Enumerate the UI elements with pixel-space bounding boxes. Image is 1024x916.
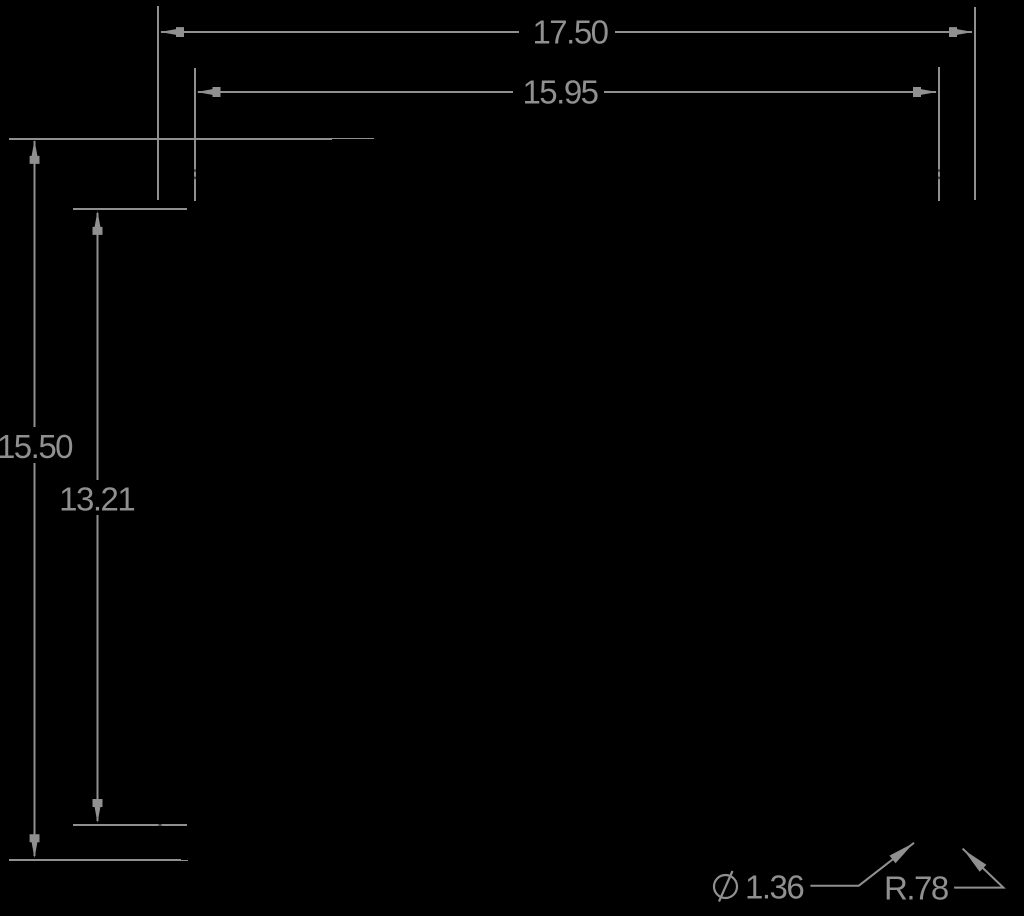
svg-text:1.36: 1.36	[745, 869, 803, 906]
svg-text:17.50: 17.50	[532, 14, 608, 51]
arrowhead 17.50 left	[160, 27, 184, 37]
dimension 17.50 dimension line left segment	[161, 31, 519, 33]
arrowhead 13.21 up	[93, 211, 103, 235]
dimension 15.95 dimension line right segment	[604, 91, 936, 93]
arrowhead 13.21 down	[93, 799, 103, 823]
arrowhead 15.95 left	[197, 87, 221, 97]
dark notch on 13.21 bottom extension line (part edge crossing)	[159, 824, 162, 827]
arrowhead leader diameter 1.36	[890, 843, 914, 863]
dark notch on 15.95 left extension line (part edge crossing)	[194, 169, 197, 172]
dimension 17.50 right extension line	[974, 7, 976, 200]
diameter symbol of 1.36 callout	[714, 871, 737, 902]
dimension 13.21 dimension line lower segment	[97, 515, 99, 821]
dark notch on 15.95 right extension line (part edge crossing)	[938, 169, 941, 172]
dimension 17.50 left extension line	[157, 6, 159, 200]
dimension 15.95 left extension line	[194, 68, 196, 201]
svg-text:13.21: 13.21	[59, 481, 134, 518]
arrowhead leader radius R.78	[964, 850, 987, 872]
dimension 13.21 dimension line upper segment	[97, 213, 99, 480]
svg-text:R.78: R.78	[884, 870, 948, 907]
svg-text:15.50: 15.50	[0, 428, 73, 465]
svg-text:15.95: 15.95	[522, 74, 597, 111]
dimension 13.21 bottom extension line	[73, 824, 187, 826]
dimension 15.50 top extension line	[9, 138, 332, 140]
dimension 15.95 dimension line left segment	[198, 91, 513, 93]
arrowhead 15.50 up	[30, 140, 40, 164]
dimension 17.50 dimension line right segment	[615, 31, 972, 33]
arrowhead 15.95 right	[913, 87, 937, 97]
dimension 13.21 top extension line	[73, 208, 187, 210]
leader line for diameter 1.36	[810, 843, 914, 886]
dimension 15.50 dimension line lower segment	[34, 463, 36, 856]
dimension 15.50 dimension line upper segment	[34, 141, 36, 427]
dimension 15.50 bottom extension line	[9, 859, 181, 861]
leader line for radius R.78	[954, 849, 1003, 888]
arrowhead 15.50 down	[30, 834, 40, 858]
arrowhead 17.50 right	[949, 27, 973, 37]
dimension 15.50 bottom extension line tapered end	[181, 860, 188, 862]
dimension 15.50 top extension line tapered end	[332, 138, 374, 140]
dimension 15.95 right extension line	[938, 67, 940, 201]
